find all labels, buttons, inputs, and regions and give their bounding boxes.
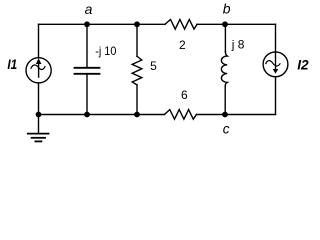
node a dot [84,21,90,27]
wire bottom-left segment [39,114,165,116]
resistor R 2ohm [165,20,197,30]
resistor 5 top stub [136,24,138,56]
ground [28,134,49,142]
capacitor -j10 plates [75,68,100,74]
svg-text:6: 6 [181,88,188,102]
current source I2 [263,52,288,77]
junction dot bottom capacitor [84,112,90,118]
svg-text:c: c [223,122,230,137]
inductor j8 coil [221,52,227,87]
junction dot bottom resistor5 [134,112,140,118]
junction dot top resistor5 [134,21,140,27]
wire bottom-right segment to corner [197,114,276,116]
wire left branch top [38,24,40,57]
svg-text:-j 10: -j 10 [95,44,116,58]
node b dot [222,21,228,27]
wire right branch bottom [275,77,277,115]
wire top-right segment to node b and corner [197,23,276,25]
capacitor -j10 bottom stub [86,75,88,115]
capacitor -j10 top stub [86,24,88,67]
inductor j8 bottom stub [224,86,226,115]
svg-text:I2: I2 [297,56,309,72]
wire top-left segment a to resistor 2 [39,23,166,25]
svg-text:2: 2 [179,38,186,52]
inductor j8 top stub [224,24,226,51]
junction dot bottom-left ground [36,112,42,118]
wire left branch bottom [38,83,40,115]
svg-text:j 8: j 8 [231,38,245,52]
svg-text:5: 5 [150,59,157,73]
resistor R 6ohm [165,110,197,120]
wire ground stem [38,115,40,134]
resistor R 5ohm [132,56,142,85]
svg-text:b: b [223,1,231,17]
resistor 5 bottom stub [136,85,138,115]
svg-text:I1: I1 [7,56,17,72]
svg-text:a: a [85,1,93,17]
node c dot [222,112,228,118]
current source I1 [26,58,51,83]
wire right branch top [275,24,277,52]
